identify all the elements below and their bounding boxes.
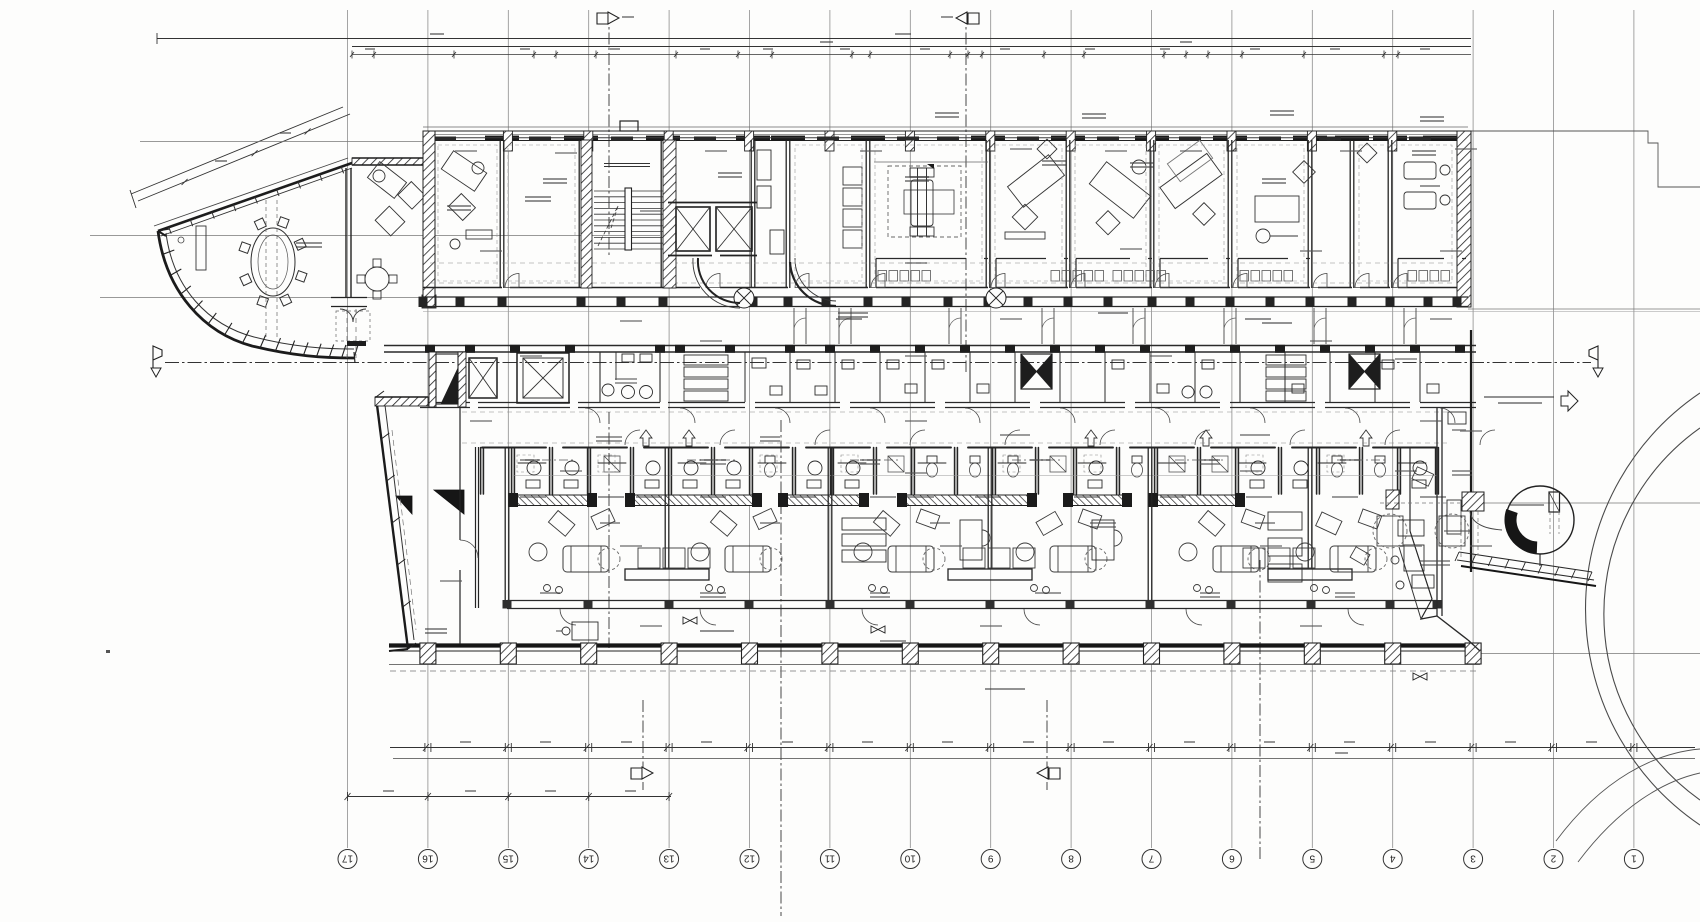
pod centerlines dash-dot <box>525 459 1385 461</box>
svg-text:1: 1 <box>1631 853 1637 864</box>
office round table <box>357 259 397 299</box>
section flag B bottom <box>631 767 653 779</box>
stair room walls <box>581 140 676 288</box>
reference line y=308 right extension <box>1468 308 1700 310</box>
middle band bottom wall <box>420 403 1476 408</box>
svg-text:5: 5 <box>1309 853 1315 864</box>
locker column 2 <box>1266 355 1306 401</box>
plinth line below bottom band <box>423 311 1700 313</box>
terrace label <box>700 630 734 632</box>
svg-text:12: 12 <box>744 853 756 864</box>
site boundary line top right <box>1471 131 1700 187</box>
upper wing room partitions <box>500 140 1392 288</box>
svg-text:14: 14 <box>583 853 595 864</box>
lobby wall x=460 <box>460 408 478 644</box>
twin bed room <box>1357 143 1450 209</box>
terrace door swings <box>560 609 1364 625</box>
left wing entrance doors <box>336 309 370 341</box>
entry walkway dashes <box>347 309 356 358</box>
svg-text:11: 11 <box>824 853 835 864</box>
centerline A (horizontal dash-dot) <box>165 362 1591 364</box>
wheelchair symbol terrace <box>556 622 598 640</box>
section line C bottom (x=1047) <box>1046 700 1048 790</box>
upper wing right exterior wall <box>1457 131 1471 307</box>
bottom dimension line 3 (short) <box>345 792 673 801</box>
section line B (x=609) <box>608 12 610 258</box>
upper wing corridor dashed lines <box>430 263 1457 283</box>
survey marker 2 <box>871 626 885 633</box>
svg-text:15: 15 <box>502 853 514 864</box>
corridor dashed lines lower <box>462 412 1447 443</box>
elevator L2 <box>517 353 569 403</box>
survey marker 3 <box>1413 673 1427 680</box>
east unit interior <box>1447 412 1466 534</box>
service shaft left <box>429 352 466 407</box>
bathroom band partitions <box>481 448 1439 495</box>
column grid lines 17..1 <box>348 10 1634 848</box>
svg-text:6: 6 <box>1229 853 1235 864</box>
elevator U2 <box>716 207 752 251</box>
left wing curved south wall <box>158 229 358 358</box>
treatment room bed cluster <box>874 162 988 237</box>
misc labels <box>440 148 1492 627</box>
section flag C top <box>956 12 979 24</box>
middle band top wall <box>384 345 1476 353</box>
section flag B top <box>597 12 619 24</box>
section line B bottom (x=643) <box>642 700 644 790</box>
upper wing bottom exterior wall <box>419 297 1469 307</box>
ramp label <box>1444 530 1470 532</box>
left wing tip wall <box>158 231 166 236</box>
survey marker 1 <box>683 617 697 624</box>
bottom dimension line 2 <box>393 758 1695 760</box>
svg-text:9: 9 <box>987 853 993 864</box>
bath band mid line <box>513 475 1437 477</box>
upper wing room inset dashed rects <box>438 145 1452 281</box>
locker column 1 <box>684 355 728 401</box>
window seat rows upper wing <box>878 271 1450 282</box>
bedroom dividers <box>505 447 1352 600</box>
south dashed line <box>390 670 1480 672</box>
top dimension line 3 (ticked) <box>350 51 1471 59</box>
bathroom dashed shower squares <box>517 455 1344 472</box>
section line E (x=1260) <box>1259 560 1261 862</box>
upper wing left exterior wall <box>423 131 435 307</box>
svg-text:17: 17 <box>342 853 354 864</box>
corridor hose-reel circle 1 <box>734 288 754 308</box>
lower wing labels <box>520 434 1472 642</box>
grid bubbles 17..1 (numbers upside down) <box>338 850 1643 869</box>
elevator L1 <box>469 358 497 398</box>
top band lintel line <box>423 126 1468 128</box>
shaft cross square 1 <box>1021 354 1052 389</box>
centerline flag left <box>151 346 162 377</box>
room labels upper wing <box>447 110 1444 211</box>
left wing slanted curtain wall (top edge) <box>154 158 352 236</box>
room 1 diagonal desks <box>441 151 492 249</box>
middle band labels <box>615 312 1271 384</box>
east unit furniture <box>1396 467 1434 589</box>
partition x=477 <box>476 447 479 608</box>
section flag C bottom <box>1037 767 1060 779</box>
main stair <box>594 164 663 251</box>
elevator lobby curved wall <box>693 258 836 308</box>
wc room middle <box>600 352 660 402</box>
ramp <box>1455 552 1596 586</box>
svg-text:7: 7 <box>1148 853 1154 864</box>
svg-text:8: 8 <box>1068 853 1074 864</box>
square tables module 5 <box>1350 514 1469 565</box>
shelf column right module <box>1268 512 1302 582</box>
office desks (diamond) in left wing <box>367 162 425 236</box>
entrance arrow + label <box>1484 391 1578 411</box>
top dimension line 2 <box>352 41 1471 47</box>
left wing top connector wall <box>352 158 427 165</box>
east wall pier A <box>1462 492 1484 511</box>
entrance pier <box>422 295 436 308</box>
bottom dimension line 1 <box>390 743 1695 752</box>
upper wing top exterior wall band <box>423 131 1468 151</box>
middle band fixtures <box>752 358 1439 398</box>
day room table <box>1255 161 1315 243</box>
centerline flag right <box>1589 346 1603 377</box>
section line C (x=966) <box>965 12 967 372</box>
conference room cabinet <box>196 226 206 270</box>
top dimension line 1 <box>157 33 1471 44</box>
bedroom south wall <box>503 600 1442 609</box>
svg-text:2: 2 <box>1550 853 1556 864</box>
entry stub wall <box>347 341 366 346</box>
conference table (oval) <box>239 217 307 308</box>
svg-text:3: 3 <box>1470 853 1476 864</box>
middle band small rooms <box>745 352 1420 402</box>
wedge echo on angled wall <box>396 496 412 514</box>
section line D (x=781) <box>780 420 782 916</box>
reference line y=297 left <box>100 297 424 299</box>
driveway arc outer <box>1586 393 1700 825</box>
lounge seat column <box>843 167 862 248</box>
corridor up arrows <box>640 430 1372 446</box>
west band edge wall <box>375 397 428 406</box>
svg-text:16: 16 <box>422 853 434 864</box>
left wing partition wall x=348 <box>346 168 351 297</box>
diagonal dimension lines top-left <box>130 107 350 208</box>
upper wing corridor door swings <box>505 274 1407 288</box>
shaft cross square 2 <box>1349 354 1380 389</box>
reference line y=653 right extension <box>1480 653 1700 655</box>
writing desks module 3 <box>842 518 1122 562</box>
corridor hose-reel circle 2 <box>986 288 1006 308</box>
reference line y=141 left <box>140 141 424 143</box>
gap band label marks <box>836 318 1292 324</box>
svg-text:13: 13 <box>663 853 675 864</box>
east end unit walls <box>1399 330 1480 651</box>
svg-text:10: 10 <box>904 853 916 864</box>
wing south straight wall <box>331 298 367 307</box>
hatch row labels <box>520 496 1446 498</box>
east wall pier B <box>1386 490 1399 509</box>
bathroom fixtures <box>526 456 1427 488</box>
patient room diagonal bed B <box>1089 160 1150 235</box>
reference line y=503 right extension <box>1476 502 1700 504</box>
section line B lower segment <box>608 412 610 648</box>
plumbing wall hatched band <box>508 493 1245 507</box>
stair duct on top wall <box>620 121 638 131</box>
lower wing south exterior wall <box>389 643 1481 665</box>
bedroom furniture <box>529 508 1387 593</box>
curve-to-wing junction <box>354 352 355 363</box>
spiral stair <box>1470 486 1574 566</box>
tip detail circle <box>178 237 184 243</box>
conference room dashed ceiling lines <box>266 200 277 338</box>
curtain wall mullion ticks <box>169 167 344 234</box>
shear wall wedge <box>434 490 464 514</box>
room 2 label <box>525 196 551 198</box>
lobby label <box>425 628 447 630</box>
lower wing corridor door swings <box>585 408 1495 445</box>
driveway arc inner <box>1604 428 1700 800</box>
upper wing corridor wall (room fronts) <box>423 287 1457 289</box>
dashed details near stair <box>1380 503 1559 557</box>
pantry room fixtures <box>757 150 784 254</box>
gap band connector stubs <box>794 308 1416 344</box>
reference line y=235 <box>90 235 660 237</box>
bathroom band top walls <box>482 447 1437 449</box>
patient room diagonal bed C <box>1160 140 1222 225</box>
patient room diagonal bed A <box>1005 139 1064 239</box>
elevator U1 <box>676 207 710 251</box>
curb arc bottom right a <box>1556 749 1700 841</box>
upper wing room front walls right half <box>876 259 1466 288</box>
lower wing west angled wall <box>376 391 416 651</box>
svg-text:4: 4 <box>1389 853 1395 864</box>
elevator shaft enclosure <box>668 203 757 256</box>
angled inner dashed <box>392 430 416 630</box>
small dot left margin <box>106 650 110 653</box>
conference room label <box>296 242 322 244</box>
curb arc bottom right b <box>1578 773 1700 862</box>
